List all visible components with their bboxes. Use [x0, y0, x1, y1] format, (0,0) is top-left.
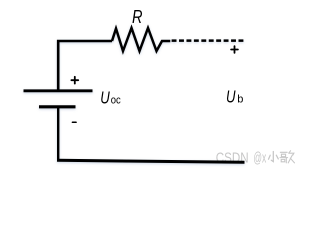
svg-text:@x: @x	[253, 151, 266, 167]
battery + polarity mark	[71, 77, 78, 84]
wire: battery - to bottom wire	[57, 107, 59, 161]
battery U_oc: top plate (+)	[24, 89, 93, 92]
svg-text:U: U	[226, 87, 236, 107]
watermark glyph 小	[269, 152, 279, 162]
resistor R	[112, 28, 170, 51]
svg-text:oc: oc	[111, 94, 121, 106]
value label Ub	[226, 87, 243, 107]
svg-text:b: b	[237, 94, 243, 106]
wire: bottom return wire	[57, 160, 245, 162]
battery U_oc: bottom plate (-)	[39, 105, 76, 108]
svg-text:U: U	[100, 87, 110, 107]
watermark CSDN @x小歌	[216, 151, 267, 167]
battery - polarity mark	[72, 121, 76, 123]
svg-text:CSDN: CSDN	[216, 151, 249, 167]
+ polarity mark at right port	[231, 46, 238, 53]
svg-text:R: R	[132, 7, 143, 27]
watermark glyph 歌	[280, 151, 295, 163]
wire: top-left corner (battery + to resistor)	[58, 41, 112, 90]
value label Uoc	[100, 87, 121, 107]
wire: dashed line to + terminal	[172, 39, 244, 42]
